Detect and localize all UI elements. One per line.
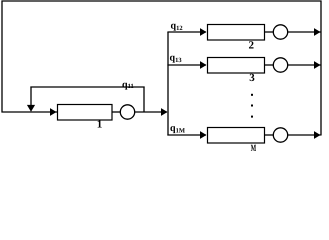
wire: branch to queue 2 <box>167 31 206 33</box>
svg-text:q1M: q1M <box>170 123 185 134</box>
svg-text:3: 3 <box>249 72 255 84</box>
ellipsis dot 3 <box>251 116 253 118</box>
queue M buffer <box>208 128 265 144</box>
server 2 circle <box>273 25 287 39</box>
server M circle <box>273 128 287 142</box>
svg-text:q13: q13 <box>170 53 183 64</box>
ellipsis dot 2 <box>251 105 253 107</box>
svg-text:q12: q12 <box>171 21 183 32</box>
arrowhead into queue 1 buffer <box>50 108 57 116</box>
ellipsis dot 1 <box>251 94 253 96</box>
svg-text:1: 1 <box>97 119 103 131</box>
arrowhead into queue M buffer <box>200 131 207 139</box>
queue 1 buffer <box>58 105 113 121</box>
wire: server M output <box>288 134 321 136</box>
svg-text:M: M <box>251 144 256 154</box>
arrowhead into queue 2 buffer <box>200 28 207 36</box>
arrowhead: feedback onto queue 1 input (junction) <box>27 105 35 112</box>
wire: feedback drop segment <box>30 87 32 109</box>
queue 3 buffer <box>208 58 265 74</box>
wire: recirculation loop right side <box>320 1 322 136</box>
server 3 circle <box>273 58 287 72</box>
svg-text:q11: q11 <box>122 80 134 91</box>
wire: feedback top segment <box>30 86 144 88</box>
arrowhead: server 1 output into distribution line <box>161 108 168 116</box>
wire: queue 3 buffer to server 3 <box>265 64 274 66</box>
arrowhead: server 2 output into right loop <box>314 28 321 36</box>
arrowhead: server M output into right loop corner <box>314 131 321 139</box>
wire: server 1 output to distribution node <box>135 111 167 113</box>
wire: server 2 output <box>288 31 321 33</box>
wire: queue 1 input line <box>2 111 58 113</box>
wire: branch to queue 3 <box>167 64 206 66</box>
wire: branch to queue M <box>167 134 206 136</box>
svg-text:2: 2 <box>248 40 254 52</box>
server 1 circle <box>120 105 134 119</box>
arrowhead into queue 3 buffer <box>200 61 207 69</box>
wire: queue 2 buffer to server 2 <box>265 31 274 33</box>
wire: queue M buffer to server M <box>265 134 274 136</box>
arrowhead: server 3 output into right loop <box>314 61 321 69</box>
wire: recirculation loop top <box>2 0 322 2</box>
wire: recirculation loop left side <box>1 1 3 113</box>
wire: queue 1 buffer to server 1 <box>112 111 121 113</box>
queue 2 buffer <box>208 25 265 41</box>
wire: server 3 output <box>288 64 321 66</box>
wire: distribution vertical line <box>167 32 169 136</box>
wire: feedback riser from server 1 output <box>143 87 145 113</box>
